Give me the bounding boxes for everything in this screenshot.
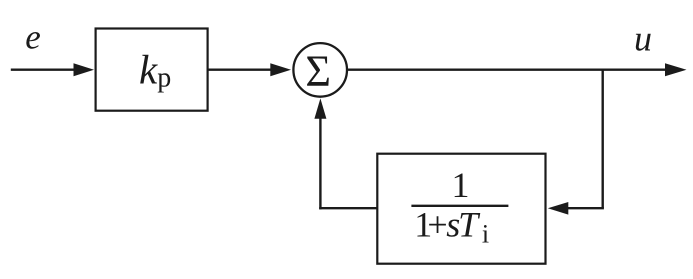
fraction bar (411, 205, 508, 207)
svg-text:e: e (25, 18, 41, 57)
svg-text:i: i (482, 220, 489, 249)
wire summing junction to output u (348, 68, 666, 70)
svg-text:Σ: Σ (305, 47, 331, 96)
arrowhead into block kp (74, 63, 95, 76)
feedback block 1/(1+sTi) (377, 154, 545, 264)
arrowhead into summing junction bottom (314, 98, 326, 118)
wire feedback block to corner (319, 207, 378, 209)
arrowhead into feedback block (548, 202, 569, 215)
wire branch to feedback block (567, 207, 604, 209)
svg-text:1: 1 (452, 165, 470, 205)
arrowhead output u (665, 63, 687, 76)
wire block kp to summing junction (208, 68, 272, 70)
svg-text:T: T (458, 205, 481, 245)
wire input e to block kp (11, 68, 76, 70)
arrowhead into summing junction (270, 63, 291, 76)
wire branch from output down (602, 69, 604, 209)
svg-text:u: u (634, 19, 652, 59)
summing junction circle (293, 43, 347, 97)
wire corner up to summing junction (319, 117, 321, 209)
svg-text:+: + (427, 205, 447, 245)
block kp (proportional gain) (96, 29, 208, 111)
